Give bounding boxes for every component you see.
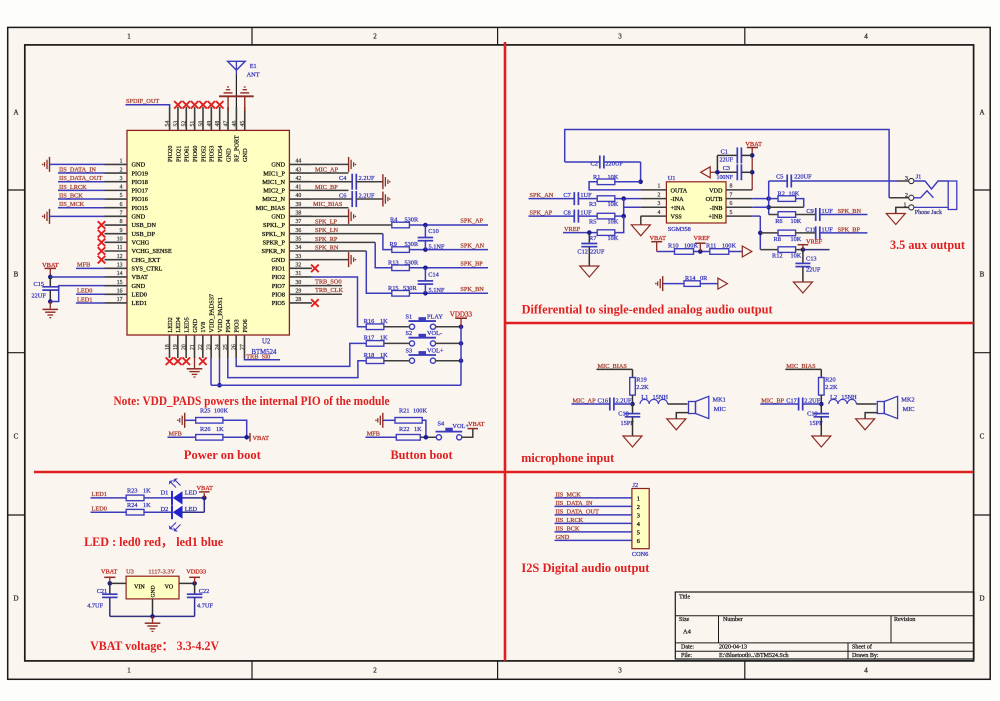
svg-text:Size: Size [679,617,690,623]
svg-text:2: 2 [637,504,640,511]
svg-text:PIO19: PIO19 [132,170,148,177]
svg-text:MIC: MIC [903,406,915,413]
svg-text:C9: C9 [806,208,813,215]
svg-text:S4: S4 [438,421,446,428]
svg-text:39: 39 [296,202,302,208]
svg-text:C22: C22 [199,588,210,595]
svg-text:51: 51 [190,121,196,127]
svg-text:LED2: LED2 [167,317,174,332]
svg-text:R5: R5 [589,218,596,225]
svg-text:10K: 10K [608,218,619,225]
svg-text:USB_DP: USB_DP [132,231,156,238]
svg-text:RF_PORT: RF_PORT [234,135,241,162]
svg-text:7: 7 [730,192,733,198]
svg-text:4: 4 [120,185,123,191]
svg-text:A: A [979,109,984,117]
svg-text:GND: GND [132,162,146,169]
svg-text:10K: 10K [608,174,619,181]
svg-text:1117-3.3V: 1117-3.3V [148,569,175,576]
svg-text:5.1NF: 5.1NF [429,243,445,250]
svg-text:E1: E1 [250,63,257,70]
svg-text:microphone input: microphone input [521,451,615,465]
svg-text:40: 40 [296,193,302,199]
svg-text:MK2: MK2 [901,397,914,404]
svg-text:3.5 aux output: 3.5 aux output [890,237,966,252]
svg-text:C: C [980,433,985,441]
svg-text:-INB: -INB [710,205,723,212]
svg-text:Sheet of: Sheet of [852,644,872,651]
svg-text:R23: R23 [127,488,138,495]
svg-text:4.7UF: 4.7UF [197,603,213,610]
svg-text:28: 28 [296,297,302,303]
svg-text:PIO3: PIO3 [233,319,240,332]
svg-text:100K: 100K [413,408,427,415]
svg-text:22UF: 22UF [720,157,734,163]
svg-text:ANT: ANT [247,71,260,78]
svg-text:R16: R16 [364,318,375,325]
svg-text:1K: 1K [380,352,388,359]
svg-text:43: 43 [296,167,302,173]
svg-text:U3: U3 [126,569,134,576]
svg-text:C1: C1 [721,148,728,155]
svg-text:1K: 1K [380,335,388,342]
svg-text:PIO2: PIO2 [272,274,285,281]
svg-text:OUTB: OUTB [706,196,723,203]
svg-text:0R: 0R [700,275,708,282]
svg-text:C18: C18 [618,410,629,417]
svg-text:1K: 1K [143,488,151,495]
svg-text:PIO6: PIO6 [242,319,249,332]
svg-text:SPKR_N: SPKR_N [262,248,286,255]
svg-text:9: 9 [120,228,123,234]
svg-text:U1: U1 [668,175,676,182]
svg-text:2: 2 [373,33,377,41]
svg-text:C11: C11 [805,226,815,233]
svg-text:29: 29 [296,289,302,295]
svg-text:A: A [13,109,18,117]
svg-text:1UF: 1UF [580,192,592,199]
svg-text:15: 15 [117,280,123,286]
svg-text:OUTA: OUTA [671,187,688,194]
svg-text:530R: 530R [405,241,419,248]
svg-text:45: 45 [240,121,246,127]
svg-text:MIC2_N: MIC2_N [262,196,285,203]
svg-text:220UF: 220UF [794,174,812,181]
svg-text:Note: VDD_PADS powers the inte: Note: VDD_PADS powers the internal PIO o… [114,394,391,408]
svg-text:Title: Title [679,595,690,601]
svg-text:14: 14 [117,271,123,277]
svg-text:C5: C5 [776,174,783,181]
svg-text:1: 1 [658,184,661,190]
svg-text:+INB: +INB [708,214,722,221]
svg-text:PIO61: PIO61 [184,146,191,162]
svg-text:LED1: LED1 [132,300,147,307]
svg-text:R20: R20 [825,376,836,383]
svg-text:VREF: VREF [806,239,823,246]
svg-text:3: 3 [618,667,622,675]
svg-text:CON6: CON6 [632,551,648,558]
svg-text:5.1NF: 5.1NF [429,287,445,294]
svg-text:PIO1: PIO1 [272,266,285,273]
svg-text:20: 20 [182,344,188,350]
svg-text:7: 7 [120,211,123,217]
svg-text:31: 31 [296,271,302,277]
svg-text:PIO54: PIO54 [217,145,224,162]
svg-text:PIO16: PIO16 [132,196,148,203]
svg-text:1: 1 [127,33,131,41]
svg-text:SPK_AP: SPK_AP [460,218,483,225]
svg-text:11: 11 [117,245,123,251]
svg-text:SPKL_N: SPKL_N [262,231,286,238]
svg-text:25: 25 [223,344,229,350]
svg-text:Date:: Date: [681,645,694,651]
svg-text:PIO60: PIO60 [192,146,199,162]
svg-text:I2S Digital audio output: I2S Digital audio output [521,561,650,575]
svg-text:USB_DN: USB_DN [132,222,157,229]
svg-text:C21: C21 [97,588,108,595]
svg-text:10K: 10K [608,201,619,208]
svg-text:36: 36 [296,228,302,234]
svg-text:44: 44 [296,159,302,165]
svg-text:49: 49 [207,121,213,127]
svg-text:SPK_BP: SPK_BP [838,226,861,233]
svg-text:SYS_CTRL: SYS_CTRL [132,266,163,273]
svg-text:2: 2 [905,193,908,199]
svg-text:PIO7: PIO7 [272,283,285,290]
svg-text:R7: R7 [589,235,596,242]
svg-text:VDD: VDD [709,187,723,194]
svg-text:2.2K: 2.2K [636,384,649,391]
svg-text:50: 50 [198,121,204,127]
svg-text:VDD33: VDD33 [450,310,473,318]
svg-text:GND: GND [225,148,232,162]
svg-text:R25: R25 [200,408,211,415]
svg-text:6: 6 [637,538,640,545]
svg-text:1: 1 [127,667,131,675]
svg-text:VO: VO [165,585,174,591]
svg-text:GND: GND [132,283,146,290]
svg-text:32: 32 [296,263,302,269]
svg-text:R9: R9 [390,241,397,248]
svg-text:22UF: 22UF [32,293,47,300]
svg-text:1K: 1K [143,502,151,509]
svg-text:3: 3 [618,33,622,41]
svg-text:30: 30 [296,280,302,286]
svg-text:Phone Jack: Phone Jack [915,210,942,216]
svg-text:MIC_BIAS: MIC_BIAS [256,205,286,212]
svg-text:4: 4 [658,210,661,216]
svg-text:C13: C13 [806,256,817,263]
svg-text:R19: R19 [636,376,647,383]
svg-text:C2: C2 [591,160,598,167]
svg-text:3: 3 [637,513,640,520]
svg-text:1UF: 1UF [822,226,834,233]
svg-text:PLAY: PLAY [427,314,443,321]
svg-text:SPKL_P: SPKL_P [263,222,286,229]
svg-text:PIO21: PIO21 [175,146,182,162]
svg-text:2.2UF: 2.2UF [616,397,632,404]
svg-text:R8: R8 [774,236,781,243]
svg-text:8: 8 [120,219,123,225]
svg-text:D: D [979,595,984,603]
svg-text:MIC1_P: MIC1_P [263,170,285,177]
svg-text:SPK_AN: SPK_AN [460,242,484,249]
svg-text:VREF: VREF [694,235,711,242]
svg-text:23: 23 [207,344,213,350]
svg-text:TRB_SO0: TRB_SO0 [315,278,342,285]
svg-text:PIO52: PIO52 [200,146,207,162]
svg-text:13: 13 [117,263,123,269]
svg-text:1UF: 1UF [580,210,592,217]
svg-text:Number: Number [723,617,743,623]
svg-text:1K: 1K [414,426,422,433]
svg-text:LED5: LED5 [183,317,190,332]
svg-text:VSS: VSS [671,214,683,221]
svg-text:Button boot: Button boot [391,448,453,462]
svg-text:D: D [13,595,18,603]
svg-text:VOL+: VOL+ [427,348,444,355]
svg-text:VCHG_SENSE: VCHG_SENSE [132,248,172,255]
svg-text:PIO20: PIO20 [167,146,174,162]
svg-text:-INA: -INA [671,196,685,203]
svg-text:VDD_PADS37: VDD_PADS37 [208,294,215,333]
svg-text:VDD33: VDD33 [186,569,206,576]
svg-text:37: 37 [296,219,302,225]
svg-text:TRB_CLK: TRB_CLK [315,287,343,294]
svg-text:R4: R4 [390,217,398,224]
svg-text:C10: C10 [428,228,439,235]
svg-text:S1: S1 [406,314,413,321]
svg-text:VBAT: VBAT [197,485,214,492]
svg-text:38: 38 [296,211,302,217]
svg-text:18: 18 [165,344,171,350]
svg-text:PIO15: PIO15 [132,205,148,212]
svg-text:R22: R22 [399,426,410,433]
svg-text:R14: R14 [685,275,696,282]
svg-text:GND: GND [271,257,285,264]
svg-text:MFB: MFB [169,430,182,437]
svg-text:D2: D2 [161,506,169,513]
svg-text:6: 6 [120,202,123,208]
svg-text:46: 46 [232,121,238,127]
svg-text:1: 1 [120,159,123,165]
svg-text:R12: R12 [772,253,783,260]
svg-text:B: B [980,271,985,279]
svg-text:2: 2 [658,192,661,198]
svg-text:L2: L2 [830,394,837,401]
svg-text:E:\Bluetooth\..\BTM524.Sch: E:\Bluetooth\..\BTM524.Sch [719,653,789,659]
svg-text:16: 16 [117,289,123,295]
svg-text:15NH: 15NH [653,394,669,401]
svg-text:+INA: +INA [671,205,686,212]
svg-text:1K: 1K [380,318,388,325]
svg-text:15NH: 15NH [841,394,857,401]
svg-text:C12: C12 [577,249,588,256]
svg-text:22: 22 [198,344,204,350]
svg-text:3: 3 [120,176,123,182]
svg-text:48: 48 [215,121,221,127]
svg-text:R13: R13 [388,259,399,266]
svg-text:MIC2_P: MIC2_P [263,188,285,195]
svg-text:54: 54 [165,121,171,127]
svg-text:12: 12 [117,254,123,260]
svg-text:47: 47 [223,121,229,127]
svg-text:100NF: 100NF [717,175,734,181]
svg-text:Drawn By:: Drawn By: [852,653,879,659]
svg-text:34: 34 [296,245,302,251]
svg-text:VOL+: VOL+ [452,423,469,430]
svg-text:GND: GND [271,214,285,221]
svg-text:VBAT voltage： 3.3-4.2V: VBAT voltage： 3.3-4.2V [90,639,219,653]
svg-text:R3: R3 [589,201,596,208]
svg-text:5: 5 [120,193,123,199]
svg-text:VOL-: VOL- [427,330,442,337]
svg-text:R21: R21 [399,408,410,415]
svg-text:VIN: VIN [134,585,145,591]
svg-text:VBAT: VBAT [101,569,118,576]
svg-text:GND: GND [192,319,199,333]
svg-text:VBAT: VBAT [468,421,485,428]
svg-text:3: 3 [905,176,908,182]
svg-text:C3: C3 [723,165,730,172]
svg-text:J1: J1 [916,174,922,181]
svg-text:PIO53: PIO53 [209,146,216,162]
svg-text:R26: R26 [200,426,211,433]
svg-text:MIC: MIC [714,406,726,413]
svg-text:PIO5: PIO5 [272,300,285,307]
svg-text:R15: R15 [388,285,399,292]
svg-text:2: 2 [120,167,123,173]
svg-text:2020-04-13: 2020-04-13 [719,645,747,651]
svg-text:PIO4: PIO4 [225,318,232,332]
svg-text:Power on boot: Power on boot [184,448,261,462]
svg-text:19: 19 [173,344,179,350]
svg-text:SPKR_P: SPKR_P [263,240,286,247]
svg-text:26: 26 [232,344,238,350]
svg-text:24: 24 [215,344,221,350]
svg-text:GND: GND [242,148,249,162]
svg-text:Revision: Revision [894,617,915,623]
svg-text:C16: C16 [598,397,609,404]
svg-text:100K: 100K [214,408,228,415]
svg-text:22UF: 22UF [590,249,605,256]
svg-text:4: 4 [864,667,868,675]
svg-text:21: 21 [190,344,196,350]
svg-text:LED4: LED4 [175,316,182,332]
svg-text:530R: 530R [405,259,419,266]
svg-text:MFB: MFB [77,262,90,269]
svg-text:1K: 1K [216,426,224,433]
svg-text:MIC1_N: MIC1_N [262,179,285,186]
svg-text:27: 27 [240,344,246,350]
svg-text:2.2UF: 2.2UF [359,175,375,182]
svg-text:SPK_BN: SPK_BN [460,286,484,293]
svg-text:8: 8 [730,184,733,190]
svg-text:U2: U2 [262,339,271,346]
svg-text:3: 3 [658,201,661,207]
svg-text:PIO8: PIO8 [272,292,285,299]
svg-text:C19: C19 [807,410,818,417]
svg-text:VDD_PADS1: VDD_PADS1 [217,297,224,332]
svg-text:10K: 10K [791,253,802,260]
svg-text:SGM358: SGM358 [668,226,691,233]
svg-text:LED : led0 red， led1 blue: LED : led0 red， led1 blue [84,535,224,549]
svg-text:2.2UF: 2.2UF [804,397,820,404]
svg-text:R18: R18 [364,352,375,359]
svg-text:22UF: 22UF [806,267,821,274]
svg-text:42: 42 [296,176,302,182]
svg-text:6: 6 [730,201,733,207]
svg-text:SPK_BN: SPK_BN [838,208,862,215]
svg-text:2: 2 [373,667,377,675]
svg-text:17: 17 [117,297,123,303]
svg-text:L1: L1 [641,394,648,401]
svg-text:Differential to single-ended a: Differential to single-ended analog audi… [522,303,773,317]
svg-text:C15: C15 [34,281,45,288]
svg-text:C14: C14 [428,272,439,279]
svg-text:GND: GND [271,162,285,169]
svg-text:R1: R1 [593,174,600,181]
svg-text:10K: 10K [789,190,800,197]
svg-text:S3: S3 [406,348,413,355]
svg-text:53: 53 [173,121,179,127]
svg-text:GND: GND [151,585,157,597]
svg-text:220UF: 220UF [605,160,623,167]
svg-text:GND: GND [132,214,146,221]
svg-text:J2: J2 [633,482,639,489]
svg-text:33: 33 [296,254,302,260]
svg-text:MFB: MFB [367,430,380,437]
svg-text:R24: R24 [127,502,138,509]
svg-text:B: B [14,271,19,279]
svg-text:R6: R6 [775,218,782,225]
svg-text:2.2K: 2.2K [825,384,838,391]
svg-text:R11: R11 [706,242,716,249]
svg-text:10K: 10K [791,236,802,243]
svg-text:PIO18: PIO18 [132,179,148,186]
svg-text:10K: 10K [791,218,802,225]
svg-text:D1: D1 [161,489,169,496]
svg-text:5: 5 [730,210,733,216]
svg-text:2.2UF: 2.2UF [359,193,375,200]
svg-text:530R: 530R [403,285,417,292]
svg-text:35: 35 [296,237,302,243]
svg-text:10K: 10K [608,235,619,242]
svg-text:530R: 530R [405,217,419,224]
svg-text:LED1: LED1 [92,491,107,498]
svg-text:File:: File: [681,653,692,659]
svg-text:1UF: 1UF [822,208,834,215]
svg-text:LED0: LED0 [132,292,147,299]
svg-text:1V8: 1V8 [200,322,207,333]
svg-text:R10: R10 [668,242,679,249]
svg-text:CHG_EXT: CHG_EXT [132,257,161,264]
svg-text:A4: A4 [683,629,692,636]
svg-text:SPK_BP: SPK_BP [460,261,483,268]
svg-text:1: 1 [637,496,640,503]
svg-text:4.7UF: 4.7UF [87,603,103,610]
svg-text:VCHG: VCHG [132,240,150,247]
svg-text:MK1: MK1 [713,397,726,404]
svg-text:C17: C17 [786,397,797,404]
svg-text:C: C [14,433,19,441]
svg-text:PIO17: PIO17 [132,188,148,195]
svg-text:LED0: LED0 [92,505,107,512]
svg-text:4: 4 [864,33,868,41]
svg-text:10: 10 [117,237,123,243]
svg-text:S2: S2 [406,330,413,337]
svg-text:R17: R17 [364,335,375,342]
